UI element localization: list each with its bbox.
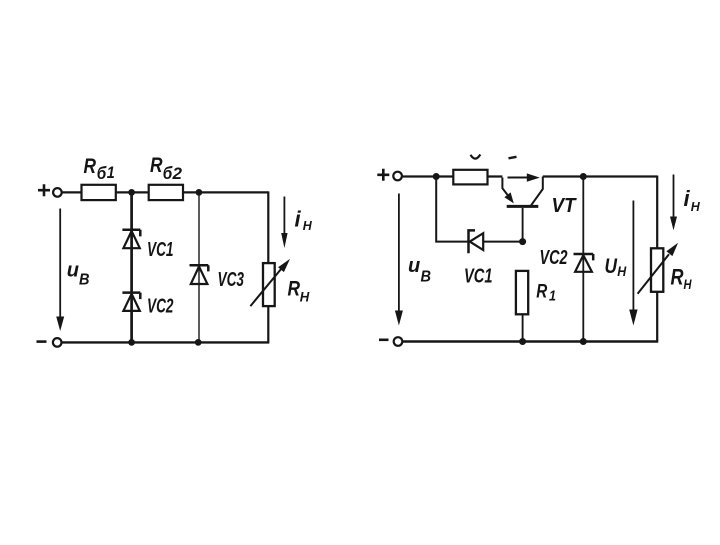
svg-text:VT: VT: [552, 194, 577, 217]
node junction dot R1 bottom: [519, 338, 526, 345]
svg-text:1: 1: [107, 163, 115, 182]
svg-text:VC3: VC3: [218, 268, 245, 291]
arrow variable Rн (right): [638, 243, 679, 294]
svg-text:2: 2: [171, 164, 182, 183]
svg-text:Н: Н: [691, 199, 701, 214]
label iн (right): [684, 186, 701, 214]
label R1: [536, 282, 556, 305]
terminal circle minus (left): [53, 338, 62, 347]
wire from input node down to VC1: [436, 177, 468, 242]
svg-text:Н: Н: [617, 264, 626, 279]
node junction dot bottom rail under VC2: [128, 339, 135, 346]
label VT: [552, 194, 577, 217]
wire zener chain VC1 VC2 (left): [130, 192, 133, 342]
label uв (left): [67, 260, 90, 289]
label Uн: [605, 255, 627, 279]
svg-text:u: u: [67, 260, 79, 282]
wire zener branch VC3 (left): [198, 192, 200, 342]
node junction dot bottom rail at VC2: [580, 338, 587, 345]
wire bottom rail (left circuit): [62, 341, 270, 343]
svg-text:i: i: [684, 186, 691, 211]
resistor R1: [516, 271, 528, 314]
wire zener branch VC2 (right): [582, 177, 584, 342]
zener diode VC2 (right): [574, 254, 594, 272]
node junction dot top rail at Rб1/Rб2: [128, 189, 135, 196]
zener diode VC1 (right, horizontal): [469, 230, 484, 253]
svg-text:VC1: VC1: [464, 265, 493, 288]
zener diode VC1: [122, 230, 140, 248]
label remnant above resistor (cropped б): [471, 155, 481, 159]
label uв (right): [408, 255, 431, 286]
label Rб1: [84, 154, 115, 183]
svg-text:VC2: VC2: [147, 294, 174, 317]
label VC2 (left): [147, 294, 174, 317]
svg-text:U: U: [605, 255, 618, 278]
svg-text:Н: Н: [303, 218, 313, 233]
resistor Rб2: [149, 185, 183, 200]
svg-text:В: В: [79, 272, 90, 289]
label VC3: [218, 268, 245, 291]
arrow iн load current (right): [670, 175, 677, 231]
wire top rail (left circuit): [62, 191, 269, 193]
svg-text:R: R: [288, 277, 301, 301]
arrow Uн output voltage: [629, 201, 637, 326]
label Rн (right): [671, 265, 692, 292]
transistor VT: [502, 177, 542, 242]
node plus terminal (left): [38, 184, 50, 196]
node junction dot bottom rail under VC3: [195, 339, 202, 346]
wire right branch (right circuit): [656, 176, 658, 342]
svg-text:В: В: [421, 269, 432, 286]
svg-text:R: R: [84, 154, 97, 178]
zener diode VC3: [190, 265, 209, 284]
svg-text:1: 1: [549, 287, 556, 304]
resistor Rн (right, variable): [651, 248, 663, 291]
label iн (left): [295, 207, 313, 234]
svg-text:R: R: [536, 282, 547, 303]
svg-text:Н: Н: [684, 277, 692, 292]
terminal circle plus (left): [53, 188, 62, 197]
label VC1 (right): [464, 265, 493, 288]
resistor Rн (left, variable): [263, 263, 275, 306]
arrow iн load current (left): [281, 197, 287, 249]
svg-text:R: R: [671, 265, 685, 290]
node junction dot base/VC1: [519, 238, 526, 245]
resistor Rб1: [82, 185, 116, 200]
arrow uв input voltage (left): [56, 209, 64, 332]
wire R1 to bottom rail: [522, 314, 524, 341]
label remnant above transistor (cropped): [509, 157, 517, 159]
wire bottom rail (right circuit): [402, 340, 658, 342]
arrow emitter lead (top, horizontal): [508, 173, 540, 181]
svg-text:VC1: VC1: [147, 238, 174, 261]
svg-text:б: б: [97, 163, 108, 183]
arrow uв input voltage (right): [395, 194, 403, 326]
label VC2 (right): [540, 246, 568, 269]
terminal circle plus (right): [393, 172, 402, 181]
node minus terminal (left): [37, 340, 47, 343]
wire right branch (left circuit): [267, 191, 269, 342]
label Rн (left): [288, 277, 310, 305]
node plus terminal (right): [377, 169, 389, 181]
svg-text:u: u: [408, 255, 420, 277]
node junction dot top rail at VC2: [580, 173, 587, 180]
wire top rail right part (right circuit): [543, 175, 657, 177]
label Rб2: [150, 153, 183, 183]
svg-text:VC2: VC2: [540, 246, 568, 269]
terminal circle minus (right): [394, 337, 403, 346]
node minus terminal (right): [379, 338, 389, 341]
svg-text:R: R: [150, 153, 163, 177]
arrow variable Rн (left): [250, 259, 290, 306]
resistor ballast (right, label cropped): [453, 170, 487, 185]
node junction dot top rail (right, input): [433, 173, 440, 180]
wire VC1 to base node: [483, 241, 522, 243]
svg-text:i: i: [295, 207, 302, 232]
zener diode VC2: [122, 293, 140, 311]
label VC1 (left): [147, 238, 174, 261]
wire top rail left part (right circuit): [402, 175, 502, 177]
node junction dot top rail after Rб2: [196, 189, 203, 196]
svg-text:Н: Н: [300, 289, 310, 304]
